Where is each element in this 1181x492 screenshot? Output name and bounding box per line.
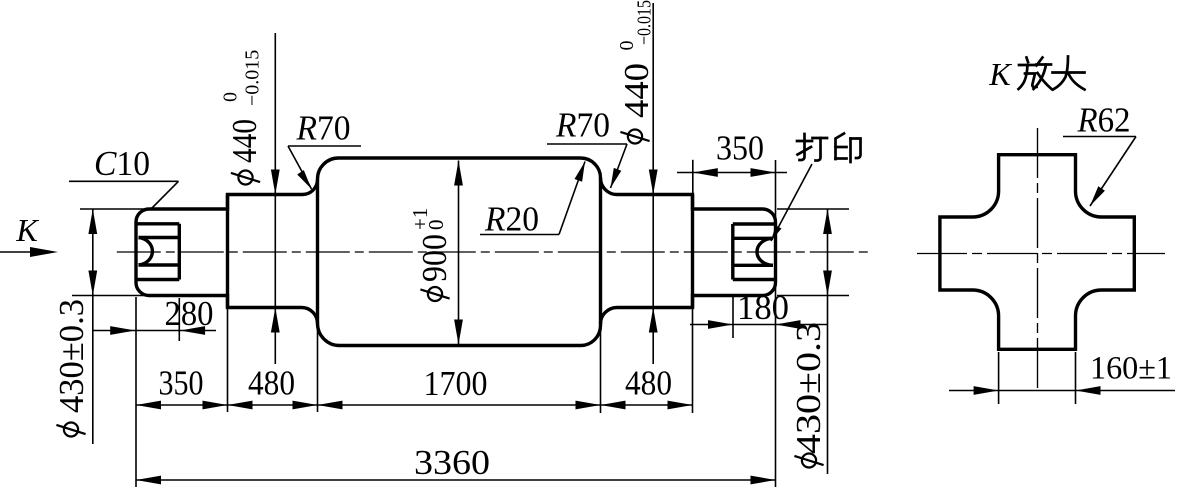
180 left arrow — [708, 320, 733, 329]
bottom chain dimension line — [136, 404, 693, 406]
svg-text:1700: 1700 — [424, 364, 488, 403]
right end long extension line — [775, 160, 777, 487]
R70 right leader line — [611, 144, 628, 188]
svg-text:350: 350 — [716, 129, 764, 168]
C10 leader line — [150, 181, 179, 210]
phi430 ±0.3 right text — [789, 322, 828, 468]
view direction arrow K head — [30, 247, 58, 257]
160 left extension line — [998, 352, 1000, 404]
160 left arrow — [974, 386, 999, 395]
detail title fang (enlarge) — [1019, 58, 1052, 90]
svg-text:R62: R62 — [1077, 101, 1131, 140]
top 350 left extension line — [692, 160, 694, 197]
280 dimension line — [93, 330, 216, 332]
3360 left arrow — [136, 476, 161, 485]
view direction arrow K line — [0, 251, 50, 253]
body right shoulder face — [599, 178, 602, 324]
350 right arrow — [203, 401, 228, 410]
label da-yin (stamp here) — [797, 134, 861, 163]
left cross-head right edge — [178, 224, 181, 280]
phi440 right down arrow — [649, 170, 658, 195]
detail title da (enlarge) — [1053, 57, 1085, 90]
phi430 left top extension line — [80, 208, 148, 210]
top 350 dimension line — [677, 172, 787, 174]
280 right arrow — [180, 326, 205, 335]
svg-text:R20: R20 — [484, 200, 539, 239]
svg-text:0: 0 — [220, 92, 242, 102]
left cross-head upper mid edge — [139, 236, 180, 239]
svg-text:R70: R70 — [555, 106, 610, 145]
R20 underline — [480, 234, 559, 236]
svg-text:3360: 3360 — [414, 443, 490, 482]
280 left arrow — [110, 326, 135, 335]
phi430 right up arrow — [823, 209, 832, 234]
svg-text:−0.015: −0.015 — [634, 0, 656, 45]
svg-text:R70: R70 — [296, 109, 351, 148]
phi430 right bottom extension line — [777, 295, 849, 297]
phi900 down arrow — [454, 320, 463, 345]
svg-text:900: 900 — [415, 234, 454, 282]
svg-text:K: K — [15, 212, 39, 248]
left cross-head top edge — [136, 222, 179, 225]
R70 left underline — [288, 145, 361, 147]
phi900 +1/0 text — [408, 208, 454, 301]
svg-text:440: 440 — [617, 63, 656, 118]
phi430 left bottom extension line — [72, 295, 147, 297]
svg-text:180: 180 — [737, 288, 789, 327]
top 350 right arrow — [751, 168, 776, 177]
right cross-head upper mid edge — [733, 237, 773, 240]
phi430 right down arrow — [823, 271, 832, 296]
phi430 ±0.3 left text — [52, 299, 91, 437]
phi430 right top extension line — [777, 208, 849, 210]
left cross-head groove arc — [139, 238, 153, 266]
phi430 left up arrow — [88, 209, 97, 234]
phi430 left dimension line — [92, 209, 94, 444]
180 right arrow — [776, 320, 801, 329]
phi430 right dimension line — [827, 209, 829, 474]
right cross-head bottom edge — [733, 278, 776, 281]
svg-text:0: 0 — [424, 220, 448, 231]
right step-journal shoulder face — [691, 195, 694, 308]
R70 right underline — [547, 143, 627, 145]
phi440 left down arrow — [271, 170, 280, 195]
detail horizontal centerline — [917, 253, 1165, 255]
svg-text:480: 480 — [248, 364, 295, 403]
shaft centerline — [117, 251, 869, 253]
da-yin leader arrow — [771, 225, 782, 241]
R62 leader arrow — [1090, 186, 1105, 206]
left journal-step shoulder face — [226, 195, 229, 308]
right cross-head groove arc — [757, 238, 773, 265]
phi440 right up arrow — [649, 308, 658, 333]
R62 underline — [1063, 136, 1136, 138]
phi900 up arrow — [454, 161, 463, 186]
160 dimension line — [949, 390, 1175, 392]
da-yin leader line — [771, 164, 812, 241]
180 extension line — [732, 297, 734, 338]
extension line at body right face — [600, 326, 602, 413]
3360 right arrow — [751, 476, 776, 485]
280 right extension line — [178, 298, 180, 341]
top 350 left arrow — [693, 168, 718, 177]
1700 left arrow — [318, 401, 343, 410]
svg-text:−0.015: −0.015 — [242, 50, 264, 106]
svg-text:430±0.3: 430±0.3 — [789, 322, 828, 454]
right cross-head top edge — [733, 222, 776, 225]
svg-text:440: 440 — [225, 119, 264, 163]
480 right arrow — [293, 401, 318, 410]
right cross-head lower mid edge — [733, 264, 773, 267]
right cross-head left edge — [731, 224, 734, 280]
1700 right arrow — [576, 401, 601, 410]
svg-text:430±0.3: 430±0.3 — [52, 299, 91, 413]
left cross-head lower mid edge — [139, 263, 180, 266]
extension line at body left face — [317, 330, 319, 412]
R62 leader line — [1090, 137, 1136, 207]
180 dimension line — [690, 324, 828, 326]
R70 left leader arrow — [297, 170, 311, 189]
480 left arrow — [228, 401, 253, 410]
svg-text:280: 280 — [165, 294, 214, 333]
left cross-head bottom edge — [136, 278, 179, 281]
extension line at right step end — [692, 309, 694, 413]
phi440 left dimension line — [274, 33, 276, 364]
body left shoulder face — [316, 180, 319, 324]
svg-text:K: K — [988, 56, 1012, 92]
svg-text:480: 480 — [625, 364, 672, 403]
detail cross-head outline — [940, 155, 1134, 350]
R70 right leader arrow — [611, 168, 622, 188]
phi900 dimension line — [458, 161, 460, 345]
phi440 tolerance right text — [616, 0, 656, 144]
phi440 left up arrow — [271, 308, 280, 333]
phi430 left down arrow — [88, 271, 97, 296]
160 right arrow — [1076, 386, 1101, 395]
350 left arrow — [136, 401, 161, 410]
3360 dimension line — [136, 479, 776, 481]
left end long extension line — [135, 297, 137, 487]
phi440 right dimension line — [652, 3, 654, 364]
480b left arrow — [601, 401, 626, 410]
svg-text:160±1: 160±1 — [1090, 351, 1172, 387]
480b right arrow — [668, 401, 693, 410]
R20 leader arrow — [575, 162, 586, 182]
R70 left leader line — [288, 146, 312, 189]
extension line at left journal-step boundary — [227, 309, 229, 412]
svg-text:C10: C10 — [94, 144, 150, 183]
phi440 tolerance left text — [220, 50, 265, 185]
svg-text:350: 350 — [159, 364, 204, 403]
R20 leader line — [559, 162, 585, 235]
C10 underline — [69, 180, 179, 182]
160 right extension line — [1075, 352, 1077, 404]
detail vertical centerline — [1037, 128, 1039, 389]
shaft outline (journals, steps, body) — [136, 158, 776, 346]
